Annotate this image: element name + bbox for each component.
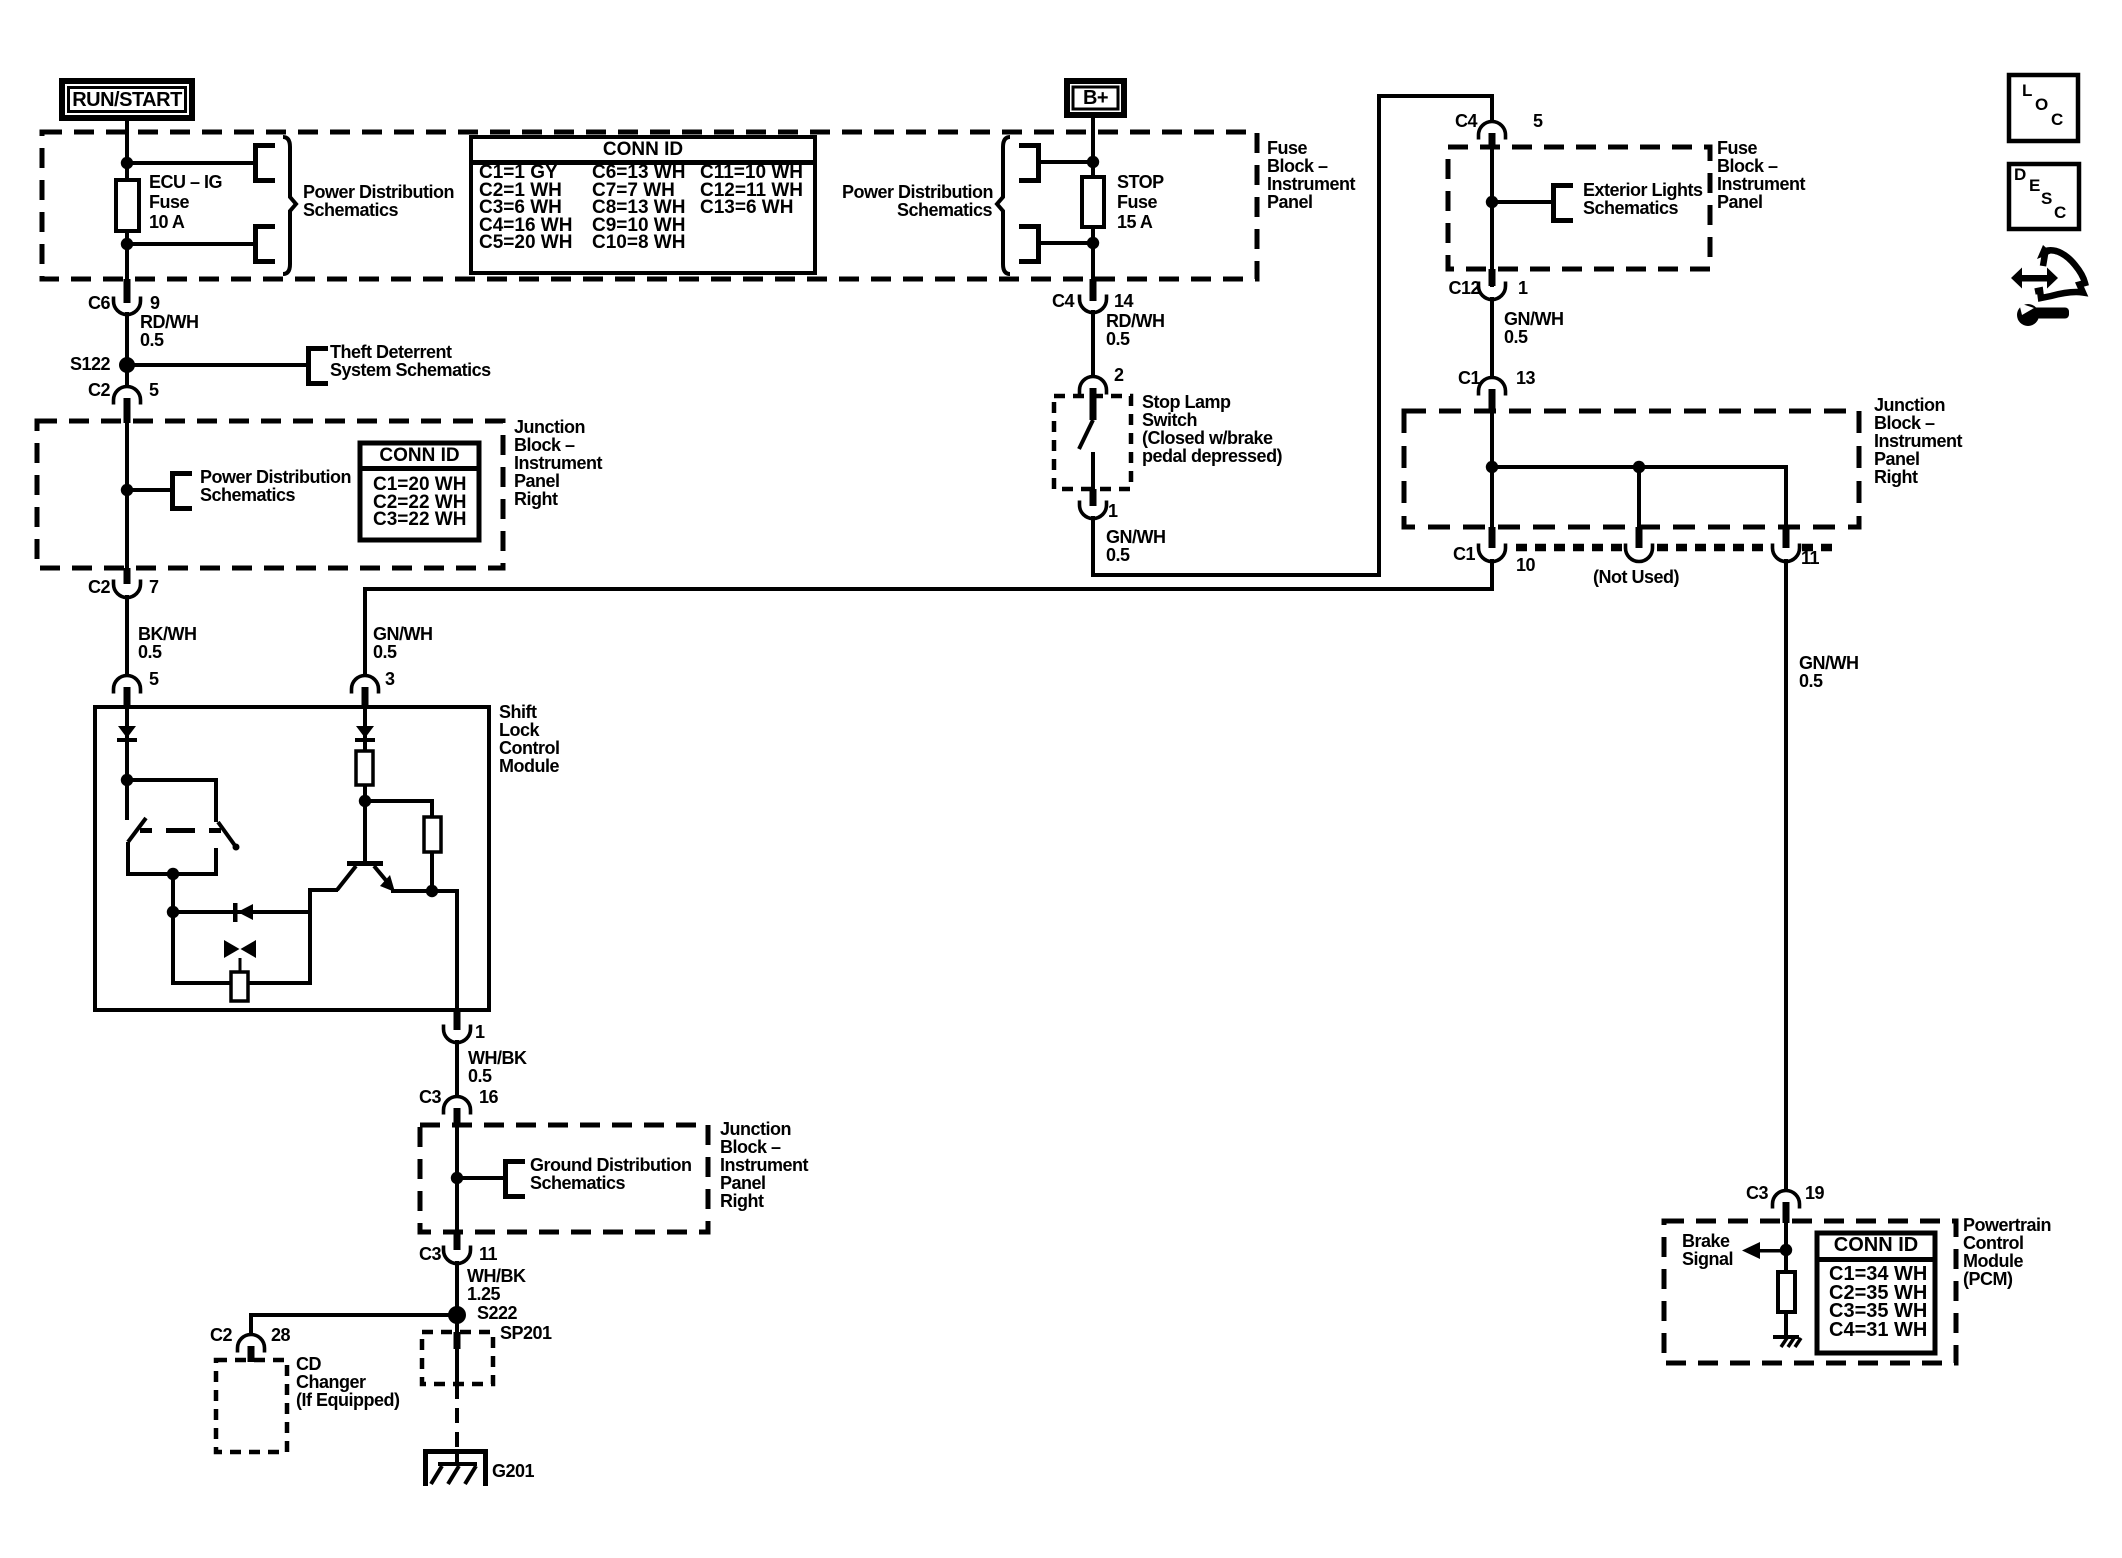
conn id table (junction block left) bbox=[360, 443, 479, 540]
wire R2 to emitter rail bbox=[430, 852, 434, 893]
wire GN/WH long horizontal to shift lock module bbox=[363, 587, 1492, 591]
resistor R3 in clamp rail bbox=[231, 972, 248, 1001]
connector C3-11 stub bbox=[454, 1232, 461, 1250]
stop lamp switch dashed box bbox=[1054, 396, 1131, 489]
connector C3 pin 11 bbox=[444, 1246, 471, 1264]
junction block - instrument panel right dashed box (left) bbox=[37, 421, 503, 568]
wire S222 down through SP201 bbox=[455, 1317, 459, 1384]
node top of fuse bbox=[121, 157, 133, 169]
powertrain control module dashed box bbox=[1664, 1221, 1956, 1363]
connector C12 pin 1 bbox=[1479, 282, 1506, 300]
node base bbox=[359, 795, 371, 807]
wire junction block horizontal bbox=[1492, 465, 1788, 469]
wire from S122 to theft deterrent bracket bbox=[127, 363, 308, 367]
wire base node horizontal bbox=[365, 799, 434, 803]
fuse block - instrument panel dashed box bbox=[42, 132, 1257, 279]
node top of STOP fuse bbox=[1087, 156, 1099, 168]
wire emitter rail down to pin 1 bbox=[455, 891, 459, 1011]
node emitter rail bbox=[426, 885, 438, 897]
brace for power distribution schematics left bbox=[283, 137, 296, 274]
transient suppressor bowtie bbox=[224, 940, 240, 958]
fuse F2 STOP 15A bbox=[1082, 177, 1104, 227]
wire diode row horizontal bbox=[173, 910, 310, 914]
splice S222 bbox=[448, 1306, 466, 1324]
wire to top right bracket bbox=[1041, 160, 1093, 164]
wire pin5 into module bbox=[125, 707, 129, 782]
DESC icon box bbox=[2009, 164, 2079, 229]
connector pin 2 of stop lamp switch bbox=[1080, 377, 1107, 395]
connector C3 pin 16 bbox=[444, 1097, 471, 1115]
connector C2 pin 5 bbox=[114, 387, 141, 405]
wire through junction block left bbox=[125, 421, 129, 570]
stop lamp switch lower contact wire bbox=[1091, 452, 1095, 505]
node junction block right 2 bbox=[1633, 461, 1645, 473]
node switch top bbox=[121, 774, 133, 786]
wire pin3 into module bbox=[363, 707, 367, 803]
flip-with-tool icon double arrow bbox=[2019, 275, 2050, 282]
wire switch bottom horizontal bbox=[126, 872, 218, 876]
connector C3-16 stub bbox=[454, 1108, 461, 1127]
wire to power distribution bracket bbox=[127, 488, 172, 492]
wire left down to clamp rail bbox=[171, 912, 175, 985]
LOC icon box bbox=[2009, 75, 2078, 141]
shift lock control module box bbox=[95, 707, 489, 1010]
resistor R1 bbox=[356, 751, 373, 785]
wire switch right upper bbox=[214, 778, 218, 822]
connector C2-5 stub bbox=[124, 398, 131, 423]
brace for power distribution schematics right bbox=[997, 137, 1010, 274]
wire RD/WH from C4-14 bbox=[1091, 310, 1095, 377]
connector C3-19 stub bbox=[1783, 1202, 1790, 1223]
bracket symbol theft deterrent bbox=[306, 346, 311, 386]
diode D1 left bbox=[118, 726, 136, 738]
power label RUN/START bbox=[59, 78, 195, 121]
connector pin5 stub bbox=[124, 687, 131, 709]
diode D3 right bbox=[356, 726, 374, 738]
connector C3 pin 19 bbox=[1773, 1191, 1800, 1209]
ground in PCM bbox=[1773, 1335, 1799, 1339]
wire GN/WH down to pin 3 bbox=[363, 589, 367, 676]
power label B+ bbox=[1064, 78, 1127, 118]
connector face dotted line C1 bbox=[1516, 544, 1624, 552]
bracket symbol exterior lights bbox=[1551, 183, 1556, 223]
wire emitter rail horizontal bbox=[391, 889, 459, 893]
wire RD/WH from C6 bbox=[125, 312, 129, 368]
connector C1 pin 13 bbox=[1479, 378, 1506, 396]
node diode row left bbox=[167, 906, 179, 918]
wire to ground distribution bracket bbox=[457, 1176, 504, 1180]
connector C2-28 stub bbox=[248, 1346, 255, 1362]
connector C1 pin 10 bbox=[1479, 544, 1506, 562]
junction block - instrument panel right dashed box (lower) bbox=[420, 1125, 708, 1232]
connector pin2 stub bbox=[1090, 388, 1097, 420]
connector C4 pin 5 bbox=[1479, 122, 1506, 140]
transistor Q1 emitter lead with arrow bbox=[374, 866, 389, 884]
wire WH/BK 1.25 down bbox=[455, 1261, 459, 1317]
flip-with-tool icon wrench bbox=[2017, 304, 2039, 326]
wire drop to pin 11 bbox=[1784, 467, 1788, 527]
wire GN/WH top horizontal bbox=[1377, 94, 1494, 98]
bracket symbol ground distribution bbox=[503, 1159, 508, 1199]
wire into PCM bbox=[1784, 1221, 1788, 1339]
node bottom of STOP fuse bbox=[1087, 237, 1099, 249]
wire down to C4-5 bbox=[1490, 96, 1494, 123]
bracket symbol top left (power distribution) bbox=[253, 143, 258, 183]
connector C4-5 stub bbox=[1489, 133, 1496, 149]
connector C6 stub bbox=[124, 279, 131, 303]
wire switch to diode row bbox=[171, 874, 175, 914]
dashed wire to ground G201 bbox=[455, 1384, 459, 1449]
wire drop not used bbox=[1637, 467, 1641, 527]
connector C2 pin 7 bbox=[114, 580, 141, 598]
wire to bottom bracket bbox=[127, 242, 253, 246]
connector C4 pin 14 bbox=[1080, 295, 1107, 313]
connector pin 1 of shift lock module bbox=[444, 1025, 471, 1043]
splice SP201 dashed box bbox=[422, 1332, 493, 1384]
bracket symbol bottom left (power distribution) bbox=[253, 224, 258, 264]
transistor Q1 base bar bbox=[347, 861, 383, 866]
wire to top bracket bbox=[127, 161, 253, 165]
connector C2-7 stub bbox=[124, 568, 131, 584]
connector pin3 stub bbox=[362, 687, 369, 709]
connector pin 5 of shift lock module bbox=[114, 676, 141, 694]
wire from pin 11 down to PCM bbox=[1784, 559, 1788, 1192]
wire to bottom right bracket bbox=[1041, 241, 1093, 245]
fuse block - instrument panel dashed box (right) bbox=[1448, 147, 1710, 269]
ground G201 bbox=[423, 1449, 488, 1454]
wire WH/BK down bbox=[455, 1040, 459, 1097]
wire base vertical bbox=[363, 801, 367, 863]
splice S122 bbox=[119, 357, 135, 373]
wire from RUN/START to fuse block bbox=[125, 121, 129, 135]
fuse F1 ECU-IG 10A bbox=[116, 180, 139, 231]
bracket symbol top (power distribution right) bbox=[1036, 143, 1041, 183]
junction block - instrument panel right dashed box (right) bbox=[1404, 411, 1859, 527]
transistor Q1 collector lead bbox=[337, 866, 356, 890]
CD changer dashed box bbox=[216, 1360, 287, 1452]
bracket symbol bottom (power distribution right) bbox=[1036, 224, 1041, 264]
node ground distribution bbox=[451, 1172, 463, 1184]
clamp rail bottom horizontal bbox=[171, 981, 312, 985]
resistor R2 bbox=[424, 817, 441, 852]
wire switch left lower bbox=[126, 842, 130, 876]
connector C2 pin 28 bbox=[238, 1335, 265, 1353]
node bottom of fuse bbox=[121, 238, 133, 250]
wire GN/WH horizontal run bbox=[1091, 573, 1381, 577]
wire through right junction block bbox=[1490, 411, 1494, 527]
node switch bottom bbox=[167, 868, 179, 880]
connector C12-1 stub bbox=[1489, 269, 1496, 286]
connector 11 stub bbox=[1783, 527, 1790, 548]
connector C1-10 stub bbox=[1489, 527, 1496, 548]
node junction block right 1 bbox=[1486, 461, 1498, 473]
switch gang dashed bar bbox=[140, 828, 152, 833]
wire GN/WH vertical riser bbox=[1377, 96, 1381, 577]
wire through ECU-IG fuse bbox=[125, 134, 129, 303]
node brake signal bbox=[1780, 1244, 1792, 1256]
node exterior lights tap bbox=[1486, 196, 1498, 208]
connector C6 pin 9 bbox=[114, 297, 141, 315]
stop lamp switch blade bbox=[1079, 420, 1093, 449]
wire switch top horizontal bbox=[125, 778, 218, 782]
connector pin not used bbox=[1626, 544, 1653, 562]
wire GN/WH from C12-1 bbox=[1490, 297, 1494, 378]
wire S122 down bbox=[125, 371, 129, 387]
wire from B+ through STOP fuse bbox=[1091, 118, 1095, 301]
wire through right fuse block bbox=[1490, 147, 1494, 287]
wire right down to clamp rail bbox=[308, 912, 312, 985]
connector pin1 stub stop lamp switch bbox=[1090, 489, 1097, 506]
connector pin 11 bbox=[1773, 544, 1800, 562]
resistor R4 in PCM bbox=[1778, 1272, 1795, 1312]
wire down to R2 bbox=[430, 801, 434, 819]
node in junction block left bbox=[121, 484, 133, 496]
switch blade right bbox=[218, 822, 236, 847]
wire GN/WH from stop lamp switch bbox=[1091, 516, 1095, 577]
wire through lower junction block bbox=[455, 1125, 459, 1235]
connector pin1 stub bbox=[454, 1010, 461, 1030]
wire to exterior lights bracket bbox=[1492, 200, 1552, 204]
wire switch right lower bbox=[214, 848, 218, 876]
connector not-used stub bbox=[1636, 527, 1643, 548]
wire brake signal arrow line bbox=[1759, 1249, 1786, 1253]
connector C1-13 stub bbox=[1489, 389, 1496, 413]
connector pin 1 of stop lamp switch bbox=[1080, 501, 1107, 519]
flip-with-tool icon hand outline bbox=[2035, 250, 2085, 298]
connector C4-14 stub bbox=[1090, 279, 1097, 301]
wire S222 to CD changer bbox=[249, 1313, 457, 1317]
wire from C1-10 down bbox=[1490, 559, 1494, 591]
wire BK/WH down to shift lock module bbox=[125, 595, 129, 676]
diode D2 pointing left bbox=[233, 903, 238, 922]
switch blade left bbox=[128, 818, 146, 842]
connector pin 3 of shift lock module bbox=[352, 676, 379, 694]
conn id table (PCM) bbox=[1817, 1233, 1935, 1353]
wire switch left upper bbox=[125, 780, 129, 820]
bracket symbol power distribution (junction block) bbox=[170, 471, 175, 511]
brake signal arrowhead bbox=[1742, 1242, 1760, 1259]
conn id table (fuse block) bbox=[471, 137, 815, 273]
